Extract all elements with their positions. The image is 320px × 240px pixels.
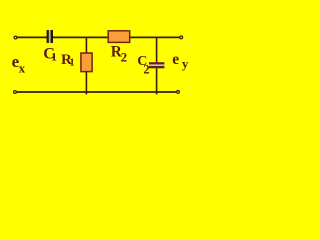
capacitor C1: [47, 30, 53, 43]
resistor R2: [108, 31, 130, 43]
wire C2 branch top: [156, 37, 158, 63]
svg-text:x: x: [19, 60, 26, 75]
wire bottom rail: [17, 91, 177, 93]
resistor R1: [81, 53, 92, 72]
svg-text:e: e: [172, 51, 179, 68]
terminal bottom-right: [177, 91, 180, 94]
svg-text:y: y: [182, 56, 189, 71]
wire R1 branch top: [85, 37, 87, 53]
terminal top-right: [180, 36, 183, 39]
terminal top-left: [14, 36, 17, 39]
svg-text:1: 1: [69, 57, 75, 69]
svg-text:2: 2: [121, 50, 128, 65]
wire top rail: terminal to C1 left plate: [17, 36, 47, 38]
svg-text:2: 2: [143, 62, 149, 76]
wire C2 branch bottom: [156, 68, 158, 94]
wire top rail: R2 to right terminal: [130, 36, 179, 38]
wire top rail: C1 to R2: [53, 36, 108, 38]
wire R1 branch bottom: [85, 72, 87, 95]
capacitor C2: [149, 62, 164, 68]
terminal bottom-left: [14, 91, 17, 94]
svg-text:1: 1: [51, 50, 57, 64]
